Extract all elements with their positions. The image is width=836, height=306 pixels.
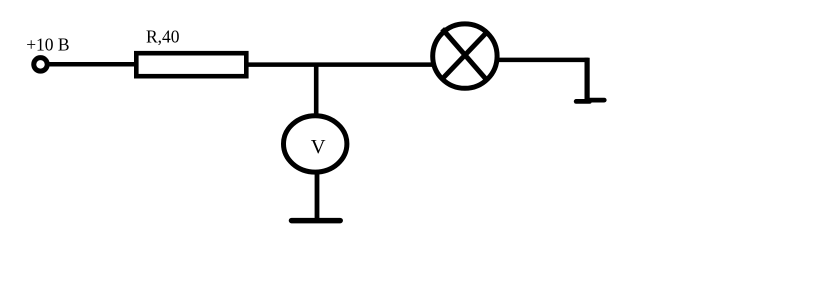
label +10 В xyxy=(26,35,69,55)
wire lamp to right corner xyxy=(499,58,589,63)
svg-text:R,40: R,40 xyxy=(146,26,180,46)
wire resistor to lamp xyxy=(249,62,433,67)
resistor R,40 xyxy=(136,53,246,76)
svg-text:+10 В: +10 В xyxy=(26,35,69,55)
wire down to ground xyxy=(584,58,589,101)
wire terminal to resistor xyxy=(49,62,136,67)
terminal input (+10 V source) xyxy=(34,58,48,72)
ground (lamp) xyxy=(576,100,604,101)
ground (voltmeter) xyxy=(292,218,341,224)
voltmeter V xyxy=(284,116,347,172)
wire voltmeter to ground xyxy=(315,173,320,220)
label R,40 xyxy=(146,26,180,46)
node junction to voltmeter xyxy=(314,64,319,115)
svg-text:V: V xyxy=(311,136,326,158)
lamp HL1 xyxy=(433,24,497,88)
